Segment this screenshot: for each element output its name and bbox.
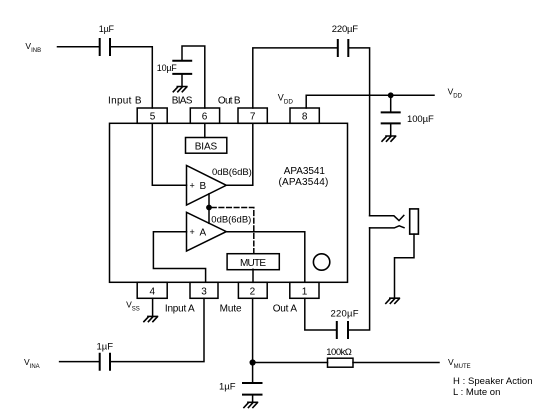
pin 7 bbox=[238, 108, 267, 123]
ground C6 bbox=[244, 402, 258, 407]
svg-text:5: 5 bbox=[150, 112, 156, 123]
wire jack sleeve to ground bbox=[395, 234, 415, 298]
svg-text:4: 4 bbox=[150, 287, 156, 298]
note L mute on bbox=[453, 387, 500, 398]
wire pin6 to BIAS block bbox=[204, 123, 206, 137]
label Out B bbox=[218, 96, 241, 107]
wire C6 to ground bbox=[252, 396, 254, 403]
svg-text:0dB(6dB): 0dB(6dB) bbox=[211, 214, 251, 225]
wire resistor to VMUTE bbox=[353, 362, 439, 364]
wire C2 bottom to ground bbox=[181, 75, 183, 87]
svg-text:VINB: VINB bbox=[25, 41, 41, 54]
wire C3 to jack tip bbox=[349, 48, 369, 216]
label gain B 0dB(6dB) bbox=[212, 167, 252, 178]
label VDD pin8 bbox=[278, 92, 294, 105]
svg-text:Input B: Input B bbox=[108, 96, 142, 107]
svg-text:APA3541: APA3541 bbox=[284, 166, 326, 177]
pin 6 bbox=[190, 108, 219, 123]
label Input A bbox=[165, 303, 195, 314]
svg-text:BIAS: BIAS bbox=[172, 96, 193, 107]
svg-text:(APA3544): (APA3544) bbox=[279, 177, 329, 188]
label C7 220uF bbox=[331, 309, 359, 320]
ground C2 bbox=[173, 87, 187, 92]
label APA3544 bbox=[279, 177, 329, 188]
circle marker bbox=[313, 254, 329, 270]
wire VINB lead bbox=[58, 46, 99, 48]
pin 4 bbox=[137, 282, 167, 298]
svg-text:220µF: 220µF bbox=[332, 24, 358, 35]
capacitor C4 100uF bbox=[382, 112, 400, 123]
svg-text:+: + bbox=[190, 181, 195, 191]
svg-text:220µF: 220µF bbox=[331, 309, 359, 320]
wire VDD junction to C4 bbox=[390, 95, 392, 111]
svg-text:Out B: Out B bbox=[218, 96, 241, 107]
svg-text:10µF: 10µF bbox=[157, 63, 178, 73]
capacitor C2 10uF bbox=[173, 61, 191, 74]
svg-text:L : Mute on: L : Mute on bbox=[453, 387, 500, 398]
pin 5 bbox=[137, 108, 167, 123]
svg-text:0dB(6dB): 0dB(6dB) bbox=[212, 167, 252, 178]
svg-text:VMUTE: VMUTE bbox=[448, 357, 471, 370]
svg-text:A: A bbox=[200, 228, 207, 239]
ground VSS bbox=[144, 316, 158, 321]
capacitor C1 1uF input B bbox=[100, 39, 110, 55]
svg-text:1µF: 1µF bbox=[99, 24, 115, 34]
wire jack tip contact bbox=[370, 215, 404, 220]
wire MUTE to pin2 bbox=[252, 269, 254, 282]
node mute junction dot bbox=[206, 205, 212, 211]
op-amp B bbox=[187, 166, 227, 206]
label APA3541 bbox=[284, 166, 326, 177]
label C2 10uF bbox=[157, 63, 178, 73]
wire mute node to resistor bbox=[253, 362, 328, 364]
node VDD junction bbox=[388, 92, 394, 98]
pin 1 bbox=[290, 282, 319, 298]
pin 3 bbox=[190, 282, 218, 298]
speaker jack plug bbox=[410, 209, 419, 234]
wire dashed mute control bbox=[212, 208, 254, 253]
label Out A bbox=[273, 303, 298, 314]
svg-text:H : Speaker Action: H : Speaker Action bbox=[453, 376, 533, 387]
wire link B to A bbox=[208, 194, 210, 223]
wire pin4 to ground bbox=[152, 298, 154, 316]
node mute net junction bbox=[250, 359, 256, 365]
node VMUTE label bbox=[448, 357, 471, 370]
wire pin6 to C2 top bbox=[182, 46, 205, 108]
wire C1 to pin5 bbox=[111, 47, 153, 108]
label Mute bbox=[220, 303, 242, 314]
svg-text:1µF: 1µF bbox=[219, 382, 236, 393]
wire opamp A output to pin1 bbox=[226, 232, 304, 282]
svg-text:Out A: Out A bbox=[273, 303, 298, 314]
capacitor C5 1uF input A bbox=[100, 354, 110, 370]
wire pin5 to opamp B input bbox=[152, 123, 186, 185]
svg-text:Input A: Input A bbox=[165, 303, 195, 314]
label Input B bbox=[108, 96, 142, 107]
svg-text:100µF: 100µF bbox=[407, 114, 434, 125]
label C3 220uF bbox=[332, 24, 358, 35]
svg-text:MUTE: MUTE bbox=[240, 258, 266, 269]
label BIAS pin bbox=[172, 96, 193, 107]
label C1 1uF bbox=[99, 24, 115, 34]
svg-text:VINA: VINA bbox=[24, 357, 40, 370]
wire pin1 to C7 bbox=[305, 298, 336, 330]
label VDD right bbox=[448, 87, 463, 100]
svg-text:VSS: VSS bbox=[126, 300, 140, 313]
svg-text:VDD: VDD bbox=[448, 87, 463, 100]
svg-text:B: B bbox=[200, 181, 207, 192]
svg-text:1: 1 bbox=[302, 287, 308, 298]
label C5 1uF bbox=[97, 342, 114, 353]
wire pin2 to mute node bbox=[252, 298, 254, 382]
svg-text:3: 3 bbox=[201, 287, 207, 298]
label R1 100k bbox=[326, 347, 352, 358]
svg-text:Mute: Mute bbox=[220, 303, 242, 314]
note H speaker action bbox=[453, 376, 533, 387]
svg-text:7: 7 bbox=[250, 112, 256, 123]
wire C7 to jack ring bbox=[349, 228, 370, 330]
node VINB label bbox=[25, 41, 41, 54]
wire VINA lead bbox=[60, 361, 99, 363]
capacitor C3 220uF outB bbox=[338, 40, 349, 56]
IC body APA3541 bbox=[110, 123, 348, 282]
svg-text:BIAS: BIAS bbox=[195, 142, 218, 153]
wire C5 to pin3 bbox=[111, 298, 204, 361]
ground C4 bbox=[382, 136, 396, 141]
wire opamp B output to pin7 bbox=[226, 123, 253, 185]
node VINA label bbox=[24, 357, 40, 370]
BIAS block bbox=[186, 138, 227, 154]
resistor R1 100k bbox=[328, 358, 354, 367]
svg-text:+: + bbox=[190, 227, 195, 237]
label gain A 0dB(6dB) bbox=[211, 214, 251, 225]
wire opamp A input from pin3 bbox=[153, 232, 205, 282]
capacitor C7 220uF outA bbox=[337, 322, 348, 338]
op-amp A bbox=[187, 212, 227, 251]
svg-text:2: 2 bbox=[250, 287, 256, 298]
pin 8 bbox=[290, 108, 319, 123]
label C6 1uF bbox=[219, 382, 236, 393]
label C4 100uF bbox=[407, 114, 434, 125]
wire pin7 to C3 bbox=[253, 48, 337, 108]
svg-text:6: 6 bbox=[202, 112, 208, 123]
label VSS bbox=[126, 300, 140, 313]
wire jack ring contact bbox=[370, 226, 404, 228]
capacitor C6 1uF mute bbox=[243, 383, 262, 395]
ground jack bbox=[386, 298, 400, 303]
pin 2 bbox=[238, 282, 267, 298]
svg-text:100kΩ: 100kΩ bbox=[326, 347, 352, 358]
MUTE block bbox=[227, 254, 279, 270]
wire pin8 to VDD rail bbox=[306, 95, 434, 108]
svg-text:8: 8 bbox=[302, 112, 308, 123]
svg-text:VDD: VDD bbox=[278, 92, 294, 105]
svg-text:1µF: 1µF bbox=[97, 342, 114, 353]
wire C4 to ground bbox=[390, 124, 392, 136]
